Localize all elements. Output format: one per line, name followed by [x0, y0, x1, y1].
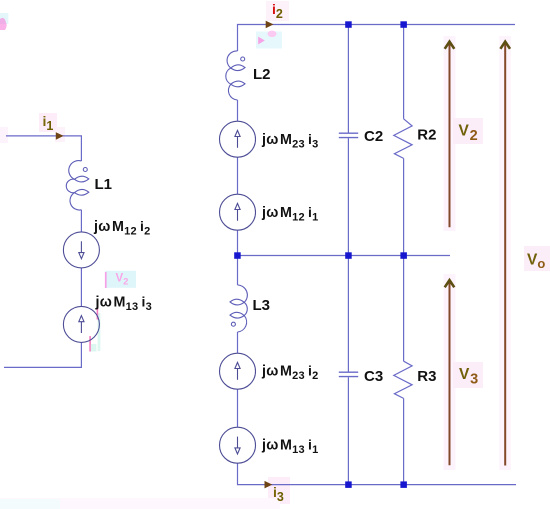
wire: left input horizontal + down to L1 [6, 136, 81, 161]
wire: C2 column [347, 25, 349, 134]
wire: middle rail [238, 255, 451, 257]
current arrow i2 [266, 21, 274, 29]
wire: L1 bottom to source S1 top [80, 210, 82, 232]
svg-text:R3: R3 [417, 368, 436, 385]
current source S5 (jwM23i2, up) [220, 353, 256, 389]
junction nodes (blue squares) [234, 21, 407, 488]
node bot-C3 [345, 481, 352, 488]
svg-text:C3: C3 [364, 368, 383, 385]
capacitor C3 [339, 372, 358, 376]
wire: S1 bottom to S2 top [80, 268, 82, 307]
inductor L2 [226, 51, 245, 100]
svg-text:L1: L1 [95, 176, 113, 193]
wire: L3 bottom to S5 top [237, 332, 239, 353]
resistor R2 [394, 119, 412, 159]
current source S6 (jwM13i1, down) [220, 427, 256, 463]
svg-text:C2: C2 [364, 128, 383, 145]
voltage arrow Vo [500, 42, 510, 466]
wire: C3 column [347, 256, 349, 373]
current arrow i3 [265, 481, 273, 489]
capacitor C2 [339, 133, 358, 137]
wire: top rail [238, 25, 516, 52]
node top-R2 [400, 21, 407, 28]
node mid-left [234, 252, 241, 258]
current arrow i1 [56, 132, 64, 140]
node mid-C [345, 252, 352, 258]
wire: R3 column [403, 256, 405, 362]
wire: R2 column [403, 25, 405, 119]
wire: S4 bottom to middle rail [237, 230, 239, 255]
wire: S5 bottom to S6 top [237, 389, 239, 427]
current source S2 (jwM13i3, up) [63, 306, 99, 342]
svg-text:L3: L3 [253, 297, 271, 314]
node bot-R3 [400, 481, 407, 488]
wire: S3 bottom to S4 top [237, 157, 239, 194]
wire: middle rail to L3 top [237, 256, 239, 286]
node mid-R [400, 252, 407, 258]
voltage arrow V3 [445, 280, 455, 465]
voltage arrow V2 [445, 42, 455, 228]
svg-text:L2: L2 [253, 66, 271, 83]
wire: L2 bottom to S3 top [237, 100, 239, 121]
inductor L1 [66, 161, 89, 210]
inductor L3 [230, 285, 247, 332]
resistor R3 [394, 361, 412, 398]
current source S4 (jwM12i1, up) [220, 194, 256, 230]
wire: S2 bottom, corner to left edge [4, 343, 81, 368]
current source S3 (jwM23i3, up) [220, 121, 256, 157]
node top-C2 [345, 21, 352, 28]
current source S1 (jwM12i2, down) [63, 232, 99, 268]
svg-text:R2: R2 [417, 127, 436, 144]
wire: S6 bottom to bottom rail [238, 463, 517, 484]
